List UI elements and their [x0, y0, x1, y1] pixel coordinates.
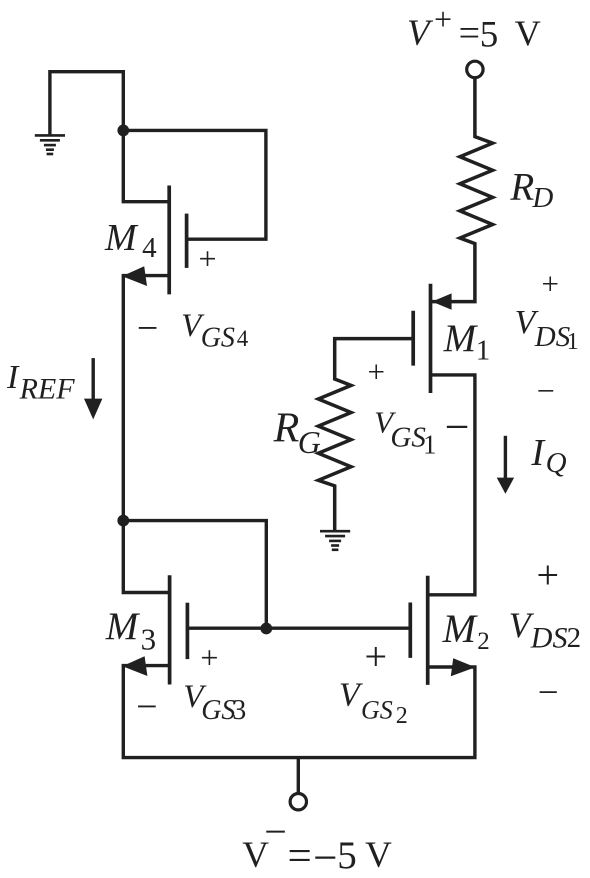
svg-text:+: + — [368, 354, 385, 389]
svg-text:5: 5 — [480, 14, 499, 55]
svg-text:V: V — [365, 835, 392, 876]
svg-text:V: V — [515, 13, 541, 53]
svg-text:+: + — [537, 553, 560, 598]
svg-text:2: 2 — [477, 628, 490, 655]
svg-text:1: 1 — [423, 430, 437, 460]
svg-text:+: + — [200, 640, 218, 676]
svg-text:3: 3 — [232, 695, 246, 726]
svg-text:−: − — [538, 673, 559, 714]
svg-text:−: − — [445, 402, 470, 451]
svg-text:R: R — [509, 166, 534, 209]
svg-text:GS: GS — [390, 422, 426, 454]
svg-text:−: − — [264, 809, 287, 854]
svg-text:GS: GS — [361, 696, 393, 725]
svg-text:Q: Q — [546, 447, 567, 479]
svg-text:I: I — [6, 359, 20, 396]
svg-text:D: D — [531, 182, 553, 214]
svg-text:−: − — [537, 372, 555, 408]
svg-text:DS: DS — [530, 621, 568, 654]
svg-text:M: M — [104, 217, 139, 259]
svg-text:I: I — [530, 432, 546, 474]
svg-text:M: M — [443, 317, 479, 360]
svg-text:M: M — [105, 605, 141, 648]
svg-text:4: 4 — [237, 326, 249, 351]
svg-text:−: − — [136, 686, 157, 728]
svg-text:=: = — [288, 833, 312, 878]
svg-text:−: − — [137, 308, 158, 350]
svg-text:R: R — [273, 405, 300, 451]
svg-text:3: 3 — [141, 622, 157, 657]
svg-text:2: 2 — [567, 622, 582, 654]
svg-text:+: + — [199, 241, 217, 277]
svg-text:M: M — [442, 606, 479, 651]
svg-text:+: + — [365, 634, 388, 679]
svg-text:4: 4 — [142, 232, 157, 264]
svg-text:1: 1 — [567, 329, 579, 355]
svg-text:GS: GS — [201, 695, 235, 726]
svg-text:G: G — [298, 424, 321, 460]
svg-text:GS: GS — [201, 323, 235, 354]
svg-text:1: 1 — [476, 335, 491, 367]
svg-text:DS: DS — [534, 321, 571, 353]
svg-text:5: 5 — [337, 834, 357, 877]
svg-text:REF: REF — [19, 372, 76, 405]
svg-text:+: + — [542, 266, 559, 301]
svg-text:=: = — [459, 13, 480, 55]
svg-text:+: + — [434, 1, 452, 37]
svg-text:−: − — [313, 835, 337, 878]
svg-text:2: 2 — [396, 703, 408, 729]
